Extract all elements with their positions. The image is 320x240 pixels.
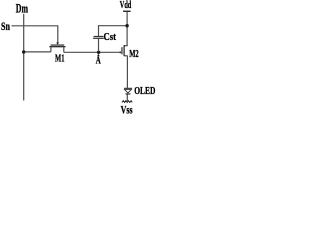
wire Cst vertical upper <box>98 25 100 36</box>
transistor M1 source leg <box>50 47 52 52</box>
transistor M2 gate bar <box>121 47 122 54</box>
transistor M2 drain leg bottom <box>124 55 128 57</box>
svg-text:Dm: Dm <box>16 1 28 16</box>
wire M1 source to Dm line <box>23 51 51 53</box>
svg-text:Sn: Sn <box>1 21 10 33</box>
node A junction dot <box>97 51 100 54</box>
transistor M1 drain leg <box>63 47 65 52</box>
wire Vdd vertical <box>126 12 128 46</box>
transistor M1 channel bar <box>49 46 65 47</box>
svg-text:Cst: Cst <box>104 32 117 43</box>
power Vdd terminal bar <box>123 11 131 12</box>
transistor M2 gate arrowhead <box>120 51 122 54</box>
node A arrowhead <box>97 54 100 57</box>
transistor M2 channel bar <box>124 45 125 56</box>
svg-text:M2: M2 <box>129 48 139 60</box>
wire Cst vertical lower <box>98 39 100 52</box>
capacitor Cst top plate <box>94 36 104 37</box>
wire Sn corner drop to M1 gate <box>57 25 59 43</box>
wire M1 drain to M2 gate <box>64 51 120 53</box>
wire Sn scan line horizontal <box>12 25 58 27</box>
wire Cst top connection to Vdd <box>99 25 128 27</box>
wire Dm data line vertical <box>23 14 25 101</box>
transistor M1 gate bar <box>51 45 65 46</box>
junction dot Vdd/Cst <box>125 24 128 27</box>
svg-text:M1: M1 <box>55 53 65 64</box>
svg-text:A: A <box>96 55 101 66</box>
transistor M2 source leg top <box>124 45 128 47</box>
svg-text:Vdd: Vdd <box>120 0 132 11</box>
transistor M1 gate arrowhead <box>56 43 59 45</box>
svg-text:OLED: OLED <box>134 86 155 97</box>
OLED anode bar <box>124 88 132 89</box>
wire M2 drain down to OLED <box>126 56 128 88</box>
svg-text:Vss: Vss <box>121 105 133 117</box>
OLED cathode bar <box>126 93 131 94</box>
Vss terminal zigzag <box>122 101 132 103</box>
OLED triangle <box>125 90 132 93</box>
wire OLED to Vss <box>126 95 128 102</box>
junction dot Dm/source <box>22 50 25 53</box>
capacitor Cst bottom plate <box>93 38 104 39</box>
